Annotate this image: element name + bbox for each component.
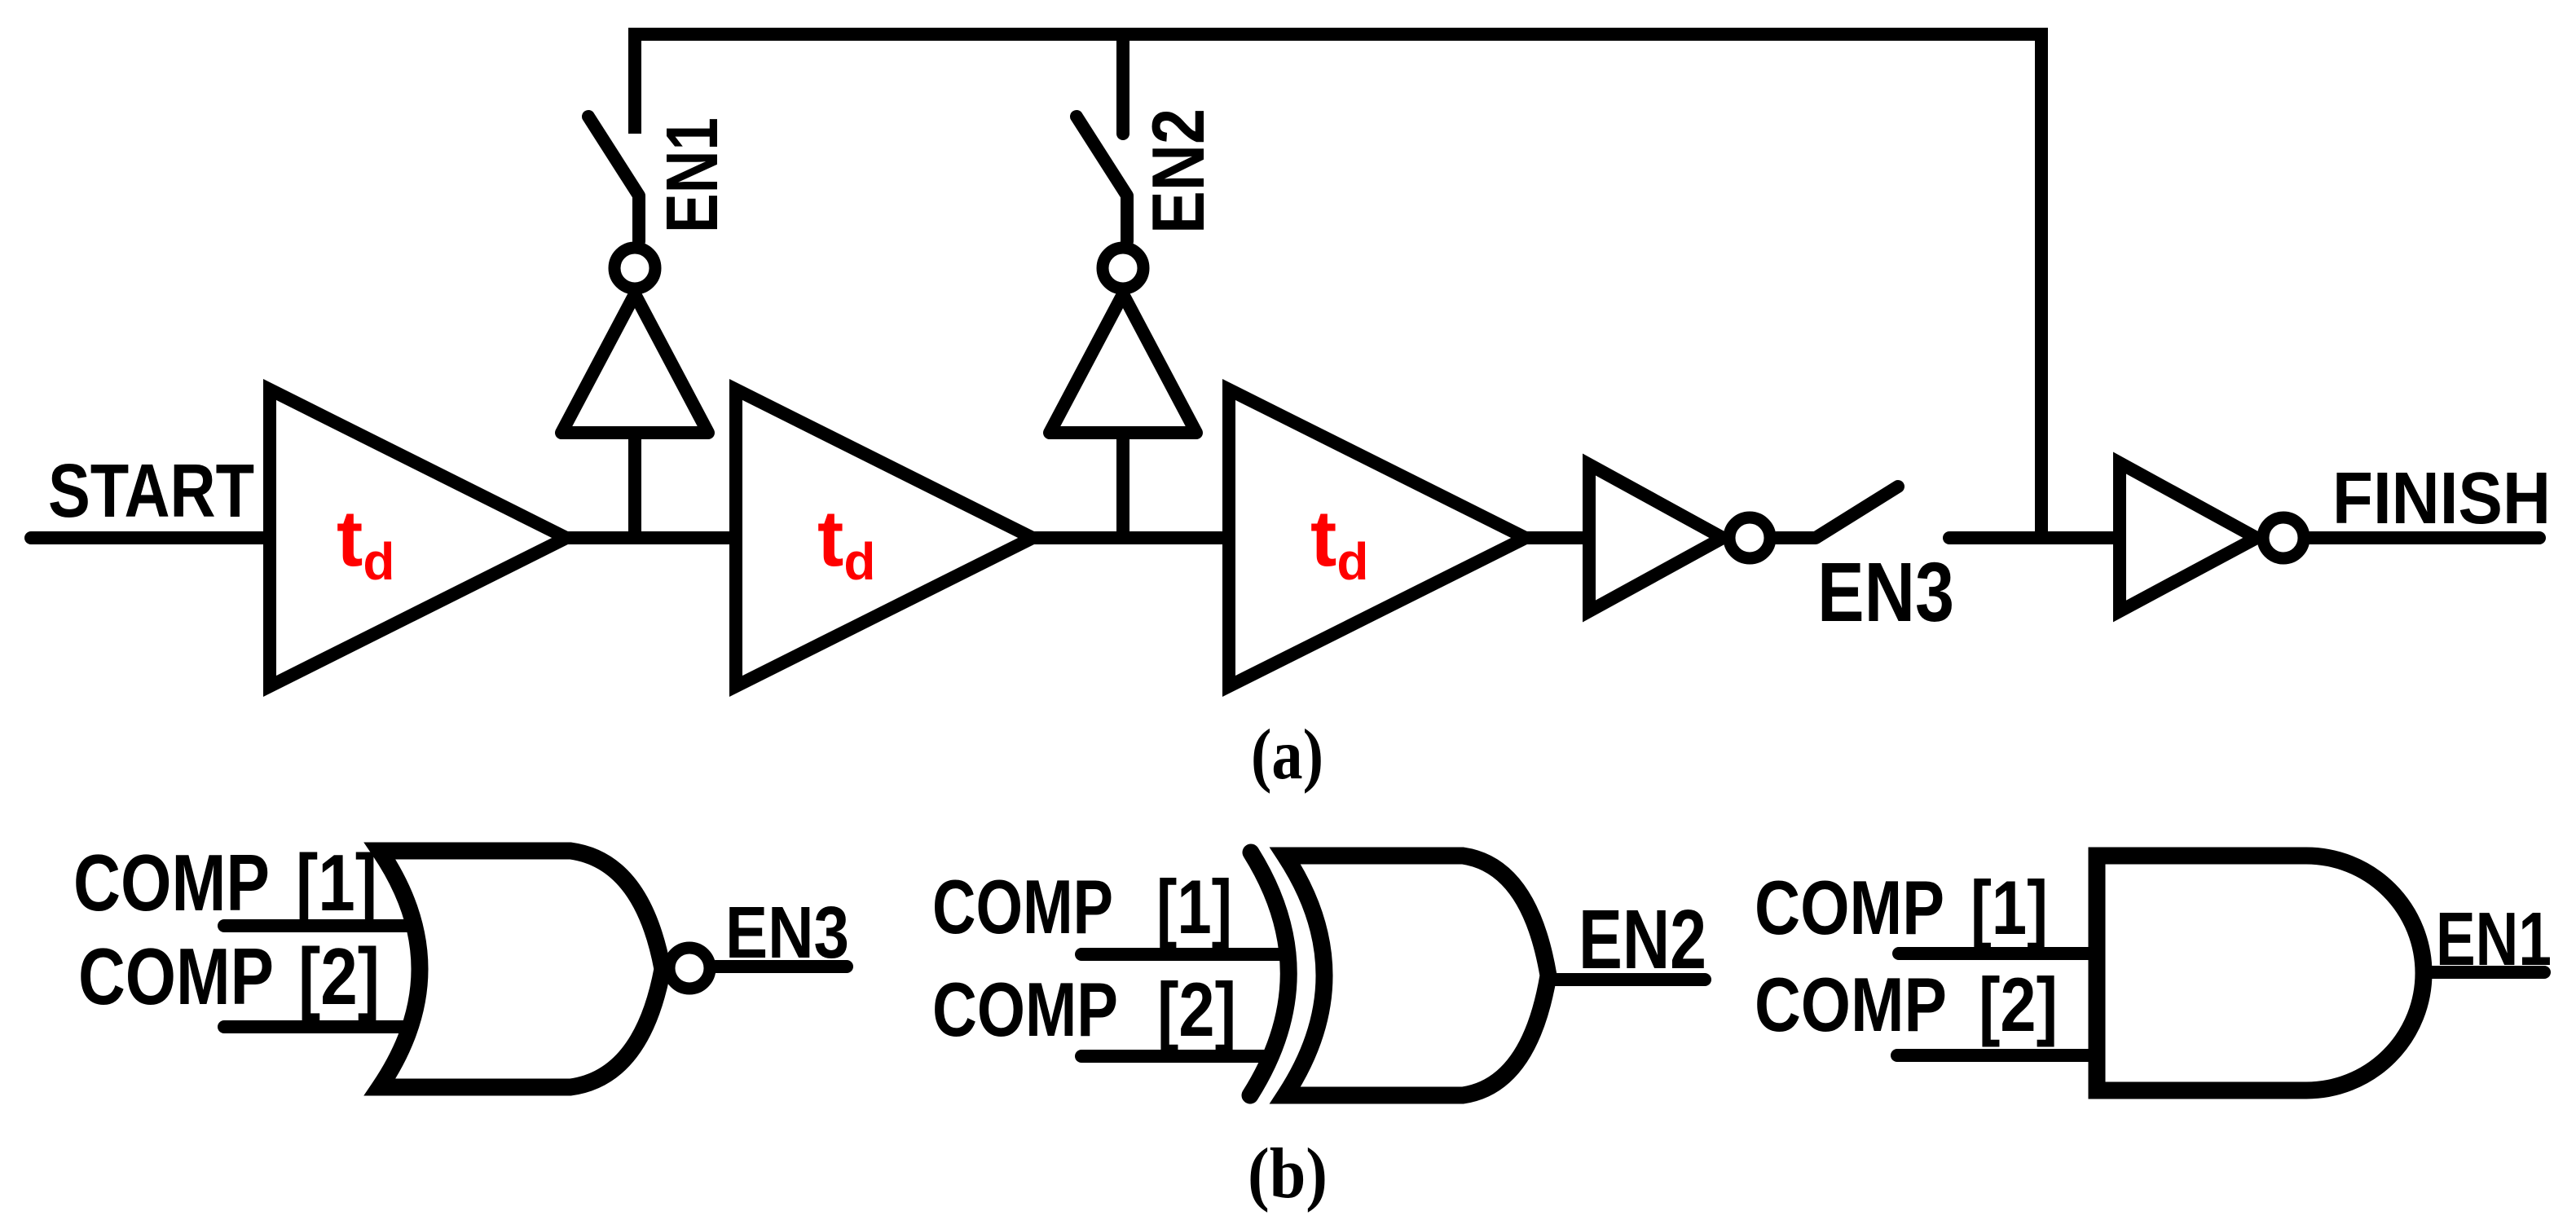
wire tristate X2 stem to node B	[1116, 433, 1129, 538]
svg-text:[2]: [2]	[1157, 967, 1236, 1052]
AND gate G3 input wire COMP[1]	[1899, 947, 2097, 960]
svg-text:START: START	[48, 448, 254, 533]
svg-text:[1]: [1]	[1156, 864, 1232, 949]
wire tristate X1 stem to node A	[628, 433, 641, 538]
svg-text:(b): (b)	[1248, 1134, 1328, 1213]
inverter U5 triangle	[2120, 463, 2257, 611]
tristate inverter X2 triangle	[1050, 294, 1196, 433]
svg-text:COMP: COMP	[73, 838, 270, 927]
switch EN1 blade	[588, 117, 639, 241]
tristate inverter X1 bubble	[614, 248, 655, 288]
svg-text:(a): (a)	[1251, 716, 1323, 795]
tristate inverter X1 triangle	[561, 294, 708, 433]
buffer U1 td	[270, 390, 566, 686]
NOR gate G1 bubble	[669, 948, 710, 989]
svg-text:EN3: EN3	[725, 892, 849, 974]
AND gate G3 body	[2097, 856, 2424, 1090]
switch EN3 blade	[1777, 487, 1898, 538]
svg-text:EN2: EN2	[1138, 108, 1220, 234]
wire START input	[31, 531, 270, 544]
svg-text:COMP: COMP	[932, 864, 1113, 949]
XOR gate G2 input wire COMP[2]	[1081, 1050, 1265, 1063]
svg-text:EN3: EN3	[1817, 545, 1954, 639]
inverter U5 bubble	[2263, 518, 2304, 558]
XOR gate G2 body	[1285, 856, 1548, 1095]
NOR gate G1 input wire COMP[2]	[224, 1020, 412, 1033]
svg-text:COMP: COMP	[78, 932, 274, 1021]
node A (buffer1 output junction) wire	[566, 531, 736, 544]
wire EN3 switch to inverter U5 (with feedback junction)	[1949, 531, 2120, 544]
wire inverter U5 output to FINISH	[2310, 531, 2539, 544]
wire buffer3 output to inverter U4	[1526, 531, 1589, 544]
svg-text:FINISH: FINISH	[2332, 458, 2551, 540]
wire feedback top rail	[635, 34, 2041, 538]
svg-text:COMP: COMP	[1755, 962, 1947, 1047]
svg-text:EN2: EN2	[1579, 892, 1706, 986]
wire G2 output EN2	[1547, 973, 1705, 986]
wire G1 output EN3	[716, 960, 847, 973]
wire buffer2 output to buffer3	[1033, 531, 1229, 544]
XOR gate G2 input wire COMP[1]	[1081, 948, 1286, 961]
buffer U3 td	[1229, 390, 1526, 686]
buffer U2 td	[736, 390, 1033, 686]
switch EN2 blade	[1077, 117, 1127, 241]
svg-text:[1]: [1]	[1971, 865, 2048, 950]
svg-text:[2]: [2]	[298, 932, 380, 1021]
svg-text:COMP: COMP	[932, 967, 1118, 1052]
wire G3 output EN1	[2423, 966, 2544, 979]
NOR gate G1 body	[380, 851, 663, 1087]
svg-text:[2]: [2]	[1979, 962, 2058, 1047]
svg-text:COMP: COMP	[1755, 865, 1944, 950]
svg-text:EN1: EN1	[652, 117, 733, 233]
NOR gate G1 input wire COMP[1]	[224, 919, 417, 932]
inverter U4 triangle	[1589, 465, 1723, 611]
AND gate G3 input wire COMP[2]	[1897, 1049, 2097, 1062]
tristate inverter X2 bubble	[1103, 248, 1143, 288]
svg-text:[1]: [1]	[296, 838, 377, 927]
svg-text:EN1: EN1	[2436, 896, 2552, 981]
XOR gate G2 extra input arc	[1250, 852, 1288, 1095]
inverter U4 bubble	[1729, 518, 1770, 558]
wire EN2 feedback stub	[1116, 34, 1129, 134]
